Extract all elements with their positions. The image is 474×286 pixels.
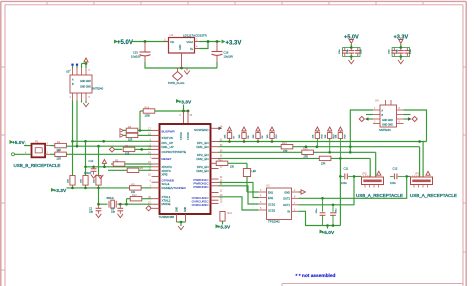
junction U5 vcc <box>85 62 88 65</box>
wire U5 pin to DM0 column <box>76 101 78 147</box>
svg-text:OCD1: OCD1 <box>268 202 276 206</box>
connector P2 USB_A_RECEPTACLE <box>356 172 403 198</box>
junction DM0/U5 <box>76 145 79 148</box>
diamond MODE pin <box>146 206 151 211</box>
svg-text:GND GND: GND GND <box>382 120 393 122</box>
svg-text:+3.3V: +3.3V <box>218 225 231 231</box>
U2 right pin numbers <box>220 126 223 204</box>
svg-text:1K5: 1K5 <box>125 153 130 156</box>
wire net +5V to regulator <box>132 41 169 43</box>
junction on DM1 wire <box>305 145 308 148</box>
U2 internal pin names right <box>192 128 210 207</box>
bypass cap group +3.3V <box>392 35 409 58</box>
second ground mid <box>98 175 104 179</box>
resistor R13 below IC <box>220 212 233 225</box>
U4 top pins <box>386 100 392 105</box>
svg-text:C15: C15 <box>133 51 138 55</box>
svg-text:100n: 100n <box>347 48 349 54</box>
svg-text:100n: 100n <box>390 181 396 185</box>
ground group1 <box>349 57 355 64</box>
hub controller U2 TUSB2046B <box>159 124 211 219</box>
supply +3.3V (regulator output) <box>222 40 242 47</box>
U4 right stub2 <box>404 114 411 116</box>
ESD suppressor U4 SN75240 <box>375 99 397 132</box>
crystal net vertical <box>98 188 100 204</box>
svg-text:C11: C11 <box>344 167 349 171</box>
wire DP1 drop to P3 <box>422 142 424 178</box>
resistor pulldown RB <box>81 141 89 188</box>
svg-text:100u: 100u <box>336 208 338 214</box>
capacitor C8 <box>397 48 404 57</box>
svg-text:100n: 100n <box>341 181 347 185</box>
PWR_FLAG <box>168 68 185 85</box>
pull-up resistor RP4 <box>267 127 278 142</box>
row resistor R5 <box>111 159 152 166</box>
svg-text:GND GND: GND GND <box>382 125 393 127</box>
svg-text:R12: R12 <box>132 194 137 197</box>
svg-text:USB_A_RECEPTACLE: USB_A_RECEPTACLE <box>356 193 403 198</box>
ground CL2 <box>118 214 124 218</box>
svg-text:DM3_EN: DM3_EN <box>196 169 208 173</box>
svg-text:1K5: 1K5 <box>128 139 133 142</box>
capacitor C1 (input electrolytic) <box>131 42 151 63</box>
row resistor R6 <box>108 167 152 173</box>
svg-text:* * not assembled: * * not assembled <box>296 273 336 279</box>
junction C2 top <box>216 40 219 43</box>
svg-text:U1: U1 <box>170 33 174 37</box>
wire C2 to rail <box>216 62 218 68</box>
svg-text:VIn: VIn <box>170 40 175 44</box>
svg-text:OUT2: OUT2 <box>283 197 290 201</box>
row OCPROT: diamond + resistor R17 <box>109 145 151 156</box>
capacitor C12 <box>390 167 407 186</box>
U5 bottom pins <box>73 93 87 101</box>
svg-text:EN2: EN2 <box>268 196 274 200</box>
wire DP0 row <box>73 140 152 142</box>
svg-text:GND: GND <box>177 207 179 212</box>
svg-text:10u/16V: 10u/16V <box>224 55 234 59</box>
node marks D+ D- <box>71 64 73 66</box>
svg-text:R16: R16 <box>145 106 150 109</box>
svg-text:PWRDN3C: PWRDN3C <box>193 185 209 189</box>
svg-text:EN1: EN1 <box>268 190 274 194</box>
capacitor C2 (output electrolytic) <box>212 42 234 63</box>
U2 internal pin names left <box>162 130 187 207</box>
svg-text:LED: LED <box>252 170 257 173</box>
svg-text:+5.0V: +5.0V <box>117 40 133 46</box>
bus wire DM2 <box>219 157 371 159</box>
svg-text:100n: 100n <box>397 48 399 54</box>
resistor R2 (series D-) <box>50 150 66 161</box>
resistor R16 <box>140 106 188 117</box>
P1 gnd pin with ring <box>12 151 32 156</box>
junctions bus DM2 <box>339 157 342 160</box>
power switch U3 TPS2042 <box>266 184 292 224</box>
capacitor CL2 <box>111 204 123 214</box>
svg-text:100K: 100K <box>145 114 151 117</box>
resistor pulldown RC <box>94 146 102 188</box>
wire over-current column <box>339 158 341 176</box>
U1 pin 2 <box>195 41 200 43</box>
junction Ta <box>207 40 210 43</box>
resistor R12 <box>127 194 152 204</box>
capacitor C17 <box>330 205 337 226</box>
junction rail <box>326 224 329 227</box>
svg-text:RESET: RESET <box>162 157 172 161</box>
junction overcurrent/C11 <box>339 175 342 178</box>
svg-text:100n: 100n <box>339 48 341 54</box>
svg-text:GND: GND <box>284 190 290 194</box>
svg-text:R14: R14 <box>282 142 287 145</box>
pull-up resistor RP3 <box>253 127 264 142</box>
svg-text:1 2 3 4: 1 2 3 4 <box>363 176 370 178</box>
wire DP2 drop to P2 <box>375 152 377 177</box>
junction cap1 <box>97 203 100 206</box>
junction DM0 col <box>97 145 100 148</box>
junctions bus DP1 <box>228 140 231 143</box>
staircase OVRCUR1 <box>219 197 259 210</box>
svg-text:27R: 27R <box>321 162 326 165</box>
wire DM1 drop to P3 <box>419 147 421 177</box>
U4 left loop wire <box>350 110 373 152</box>
U4 left pins <box>373 110 380 124</box>
row1 chain: arrow resistor to BUSPWR <box>120 126 152 133</box>
svg-text:SN75240: SN75240 <box>379 128 391 132</box>
svg-text:TUSB2046B: TUSB2046B <box>159 215 175 219</box>
svg-text:VOut: VOut <box>186 40 193 44</box>
svg-text:BUSPWR: BUSPWR <box>162 130 176 134</box>
svg-text:10u/16V: 10u/16V <box>131 55 141 59</box>
svg-text:C14: C14 <box>89 159 94 163</box>
ground symbol regulator <box>184 68 190 74</box>
ground CL1 <box>96 214 102 218</box>
svg-text:GND GND: GND GND <box>80 87 91 89</box>
bus wire DP1 <box>219 141 427 143</box>
svg-text:+5.0V: +5.0V <box>322 230 335 236</box>
svg-text:15K: 15K <box>313 134 315 138</box>
pull-up resistor RP6 <box>325 127 336 152</box>
junction cap11 top <box>332 204 335 207</box>
svg-text:USB_A_RECEPTACLE: USB_A_RECEPTACLE <box>410 193 457 198</box>
supply +5.0V bottom <box>320 226 335 236</box>
svg-text:18p: 18p <box>89 211 94 214</box>
wire row to SDA <box>86 166 152 168</box>
svg-text:TPS2042: TPS2042 <box>268 220 280 224</box>
connector P1 USB_B_RECEPTACLE <box>14 140 61 169</box>
LED D1 <box>243 163 258 192</box>
junction DP0 col3 <box>102 140 105 143</box>
svg-text:27R: 27R <box>283 150 288 153</box>
supply arrow mid <box>102 160 106 169</box>
ground U2 <box>178 226 184 230</box>
svg-text:IN: IN <box>287 210 290 214</box>
U2 left pin numbers <box>148 128 151 209</box>
capacitor C5 <box>347 48 354 57</box>
svg-text:Ta: Ta <box>190 47 193 51</box>
junction ground rail <box>180 67 183 70</box>
svg-text:OCD2: OCD2 <box>268 208 276 212</box>
supply +3.3V rail left <box>51 187 130 195</box>
bus wire DP2 <box>219 151 376 153</box>
bypass cap group +5.0V <box>343 35 360 58</box>
capacitor C6 <box>355 48 363 57</box>
capacitor C11 <box>340 167 354 186</box>
U4 right terminator <box>404 116 418 121</box>
svg-text:C12: C12 <box>393 167 398 171</box>
pull-up resistor RP2 <box>239 127 250 142</box>
resistor R15 inline <box>302 148 314 159</box>
supply +3.3V below R13 <box>216 224 231 230</box>
svg-text:15K: 15K <box>325 134 327 138</box>
svg-text:GND GND: GND GND <box>80 81 91 83</box>
U4 left stub2 <box>366 114 373 116</box>
U4 right pins <box>397 110 404 124</box>
wire xtal row right <box>118 203 152 205</box>
U5 top pins <box>73 68 87 75</box>
U5 top net stubs <box>73 64 87 69</box>
U4 left terminator <box>359 116 373 121</box>
wire xtal row <box>99 203 108 205</box>
wire OUT1 to P2 vcc <box>299 176 362 204</box>
svg-text:+3.3V: +3.3V <box>179 99 192 105</box>
capacitor C4 <box>339 48 347 57</box>
ground C14 <box>91 175 97 179</box>
suspend arrow <box>219 127 223 131</box>
svg-text:DGMEA/TUNNED: DGMEA/TUNNED <box>162 186 187 190</box>
svg-text:DM1_EN: DM1_EN <box>196 145 208 149</box>
svg-text:+5.0V: +5.0V <box>12 140 25 146</box>
wire regulator output <box>200 41 221 43</box>
U3 left pin stubs <box>259 192 267 210</box>
svg-text:100n: 100n <box>389 48 391 54</box>
supply +3.3V above IC <box>176 99 192 111</box>
resistor R21 row with LED <box>216 159 247 169</box>
resistor R14 inline <box>281 142 293 153</box>
crystal Y1 6MHz <box>107 196 117 208</box>
resistor R11 (reset) <box>130 183 152 194</box>
U3 right pin stubs <box>292 192 299 211</box>
svg-text:27R: 27R <box>304 156 309 159</box>
resistor pulldown RA <box>68 141 76 188</box>
wire ovc col join <box>339 175 341 226</box>
U3 gnd arrow <box>299 190 306 194</box>
wire OUT2 to P3 vcc <box>299 176 411 198</box>
svg-text:DML_UP: DML_UP <box>162 145 174 149</box>
svg-text:OVRCUR3C: OVRCUR3C <box>192 203 210 207</box>
svg-text:100nF: 100nF <box>84 171 92 175</box>
ground U5 <box>82 101 89 107</box>
svg-text:R21: R21 <box>218 159 223 162</box>
svg-text:150: 150 <box>230 166 235 169</box>
U1 pin 3 <box>164 41 169 43</box>
svg-text:15K: 15K <box>94 179 96 183</box>
svg-text:R15: R15 <box>303 148 308 151</box>
staircase PWRDN1 <box>219 182 259 197</box>
frame side ticks <box>1 67 466 270</box>
wire P1 vbus <box>24 145 31 147</box>
U2 left pin stubs <box>152 130 160 208</box>
junction vcc2 <box>187 110 190 113</box>
pull-up resistor RP7 <box>336 127 347 158</box>
svg-text:22R: 22R <box>57 158 62 161</box>
wire IN to +5V rail <box>299 211 323 225</box>
svg-text:18p: 18p <box>111 211 116 214</box>
svg-text:1 2 3 4: 1 2 3 4 <box>412 176 419 178</box>
capacitor C14 <box>84 159 97 175</box>
wire DM2 drop to P2 <box>369 158 371 177</box>
svg-text:OUT1: OUT1 <box>283 203 290 207</box>
P1 data pins right <box>45 145 50 147</box>
supply +5.0V (regulator input) <box>114 40 133 46</box>
voltage regulator U1 LD1117 <box>169 33 208 53</box>
svg-text:3.3VCC: 3.3VCC <box>188 132 190 140</box>
supply arrow U5 <box>84 58 88 62</box>
svg-text:DM2_EN: DM2_EN <box>196 157 208 161</box>
U1 pin 4 <box>195 48 200 50</box>
resistor R22 inline on DM2 <box>319 156 331 165</box>
svg-text:3.3VCC: 3.3VCC <box>181 132 183 140</box>
svg-text:15K: 15K <box>81 179 83 183</box>
svg-text:R11: R11 <box>131 183 136 186</box>
supply +5.0V at P1 <box>10 140 26 146</box>
row2 chain: arrow resistor <box>120 133 152 141</box>
svg-text:C16: C16 <box>224 51 229 55</box>
svg-text:SUSPEND: SUSPEND <box>194 128 209 132</box>
junctions bus DP2 <box>328 151 331 154</box>
P2 bottom stubs <box>365 185 379 188</box>
junctions bus DM1 <box>316 145 319 148</box>
title block top edge <box>282 284 463 286</box>
U2 bottom gnd pins <box>177 214 186 222</box>
svg-text:XPB: XPB <box>162 173 168 177</box>
wire U1 gnd pin <box>181 53 183 68</box>
junction C1 top <box>144 40 147 43</box>
bus wire DM1 <box>219 146 420 148</box>
staircase PWRDN2 <box>219 186 259 204</box>
capacitor CL1 <box>89 204 101 214</box>
resistor R1 (series D+) <box>50 141 66 152</box>
P3 shield arrow <box>426 171 430 175</box>
svg-text:+3.3V: +3.3V <box>54 188 67 194</box>
svg-text:15K: 15K <box>68 179 70 183</box>
junction DP0/U5 <box>84 140 87 143</box>
wire U5 pin to DP0 column <box>72 101 74 142</box>
svg-text:R13: R13 <box>228 212 233 215</box>
capacitor C9 <box>404 48 412 57</box>
ground group2 <box>398 57 404 64</box>
svg-text:MODE: MODE <box>162 202 171 206</box>
svg-text:U4: U4 <box>375 99 379 103</box>
junction xtal cap2 <box>119 203 122 206</box>
+5V bottom rail <box>323 225 341 227</box>
wire Ta pin jog <box>200 42 209 49</box>
capacitor C10 <box>316 198 325 225</box>
pull-up resistor RP5 <box>313 127 324 147</box>
svg-text:GND: GND <box>185 207 187 212</box>
junction cap10 top <box>321 197 324 200</box>
svg-text:6MHz: 6MHz <box>107 196 115 200</box>
junction R16 column <box>139 129 142 132</box>
svg-text:GND: GND <box>179 44 182 50</box>
svg-text:PWR_FLAG: PWR_FLAG <box>168 81 185 85</box>
P2 shield arrow <box>377 171 381 175</box>
pull-up resistor RP1 <box>225 127 236 142</box>
U2 right pin stubs <box>211 128 219 203</box>
svg-text:100n: 100n <box>361 48 363 54</box>
svg-text:SN75240: SN75240 <box>92 87 104 91</box>
wire DM0 row <box>66 145 151 147</box>
wire D- lower row <box>66 153 151 155</box>
wire gnd join <box>177 221 186 223</box>
wire C1 to ground rail <box>145 62 217 68</box>
svg-text:100n: 100n <box>410 48 412 54</box>
junction vcc1 <box>182 110 185 113</box>
junction OUT2/C12 <box>405 175 408 178</box>
svg-text:OCPROT/PWRTE: OCPROT/PWRTE <box>162 150 186 154</box>
svg-text:STATUS: STATUS <box>162 136 173 140</box>
svg-text:+3.3V: +3.3V <box>226 41 242 47</box>
IC vcc pins <box>184 111 189 124</box>
junction R12 tap <box>125 203 128 206</box>
svg-text:U3: U3 <box>266 184 270 188</box>
svg-text:15K: 15K <box>336 134 338 138</box>
junction col2 mid <box>84 166 87 169</box>
P3 bottom stubs <box>414 185 428 188</box>
U4 right loop wire <box>404 110 427 142</box>
connector P3 USB_A_RECEPTACLE <box>410 172 457 198</box>
svg-text:LD1117ACD33TR: LD1117ACD33TR <box>183 33 208 37</box>
wire R16 column <box>139 111 141 130</box>
svg-text:100u: 100u <box>316 208 318 214</box>
frame top ticks <box>47 1 423 4</box>
svg-text:USB_B_RECEPTACLE: USB_B_RECEPTACLE <box>14 163 61 168</box>
junction OUT1/C11 <box>353 175 356 178</box>
ESD suppressor U5 SN75240 <box>66 70 104 94</box>
capacitor C7 <box>389 48 397 57</box>
